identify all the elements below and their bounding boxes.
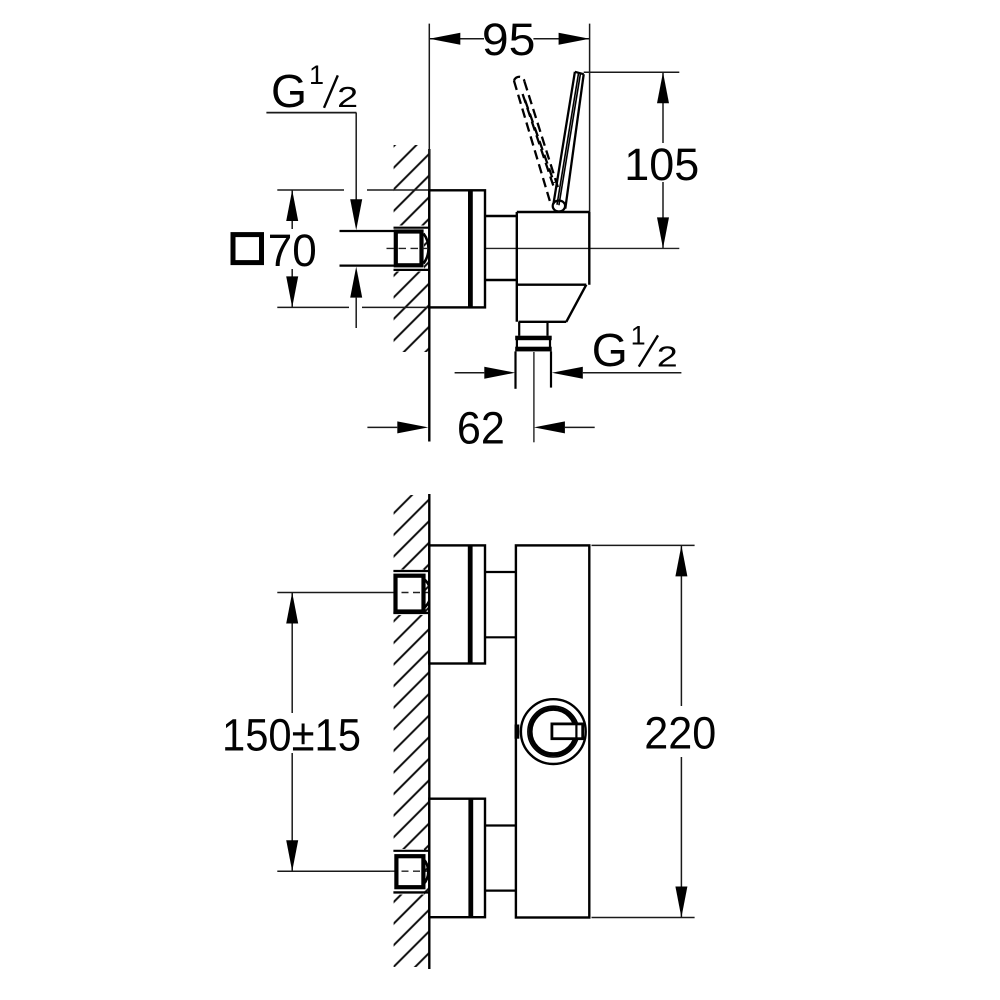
leader line with down arrow to inlet pipe — [350, 113, 362, 231]
svg-text:105: 105 — [624, 139, 699, 190]
dimension 220 text — [644, 707, 716, 758]
dimension 220 line and arrows — [675, 545, 687, 917]
svg-text:62: 62 — [457, 403, 505, 454]
dimension 150±15 text — [222, 709, 361, 760]
svg-text:2: 2 — [337, 82, 358, 114]
flange thick ring line — [468, 190, 473, 307]
dimension 62 text — [457, 403, 505, 454]
body (bottom view) — [516, 545, 589, 917]
lever dashed alternate position — [514, 77, 559, 201]
svg-text:1: 1 — [309, 60, 324, 90]
body lower trapezoid (top view) — [519, 285, 587, 322]
horizontal centerline (dash-dot then solid) — [387, 247, 680, 249]
svg-text:70: 70 — [268, 225, 317, 276]
svg-text:95: 95 — [482, 14, 536, 65]
extension line bottom of 70 (flange bottom level) — [277, 306, 429, 308]
label G 1/2 (top left) — [271, 60, 358, 117]
svg-text:220: 220 — [644, 707, 716, 758]
extension line top of 70 (flange top level) — [277, 189, 429, 191]
lower union arc — [423, 859, 428, 885]
dimension 70 text — [268, 225, 317, 276]
extension line for 95 at body right edge — [589, 24, 591, 212]
svg-text:150±15: 150±15 — [222, 709, 361, 760]
upper square union nut — [396, 576, 424, 612]
leader underline for G 1/2 (top left) — [266, 112, 356, 114]
upper neck (bottom view) — [485, 572, 516, 637]
knob handle tab divider — [575, 724, 577, 739]
fitting seat lines (top view) — [394, 228, 429, 270]
square symbol of 70 dimension — [233, 235, 262, 263]
knob inner thin circle — [528, 706, 579, 757]
square union nut (top view) — [396, 232, 422, 266]
lever solid position — [553, 72, 583, 209]
inlet pipe lines (top view) — [340, 231, 395, 266]
upper union seat lines — [393, 571, 428, 613]
label G 1/2 (outlet) — [592, 321, 678, 377]
white backing for upper union (bottom view) — [393, 570, 425, 616]
hose centerline vertical — [533, 352, 535, 442]
side button on body left edge — [515, 725, 520, 739]
lower union seat lines — [393, 851, 428, 893]
wall hatch (top view) — [394, 145, 429, 352]
lower neck (bottom view) — [485, 826, 516, 891]
body (top view) — [517, 212, 590, 322]
outlet stub (top view) — [519, 322, 547, 336]
wall line (top view) — [428, 149, 430, 442]
svg-text:2: 2 — [657, 342, 678, 374]
220 extension line bottom — [592, 917, 695, 919]
dimension 70 vertical line and arrows — [286, 190, 298, 307]
neck between flange and body (top view) — [485, 216, 517, 280]
svg-text:G: G — [271, 65, 307, 117]
upper block thick ring line — [468, 545, 473, 663]
wall line (bottom view) — [428, 494, 430, 969]
dimension G 1/2 at outlet (bottom of top view) — [455, 367, 682, 379]
union nut arc (top view) — [424, 234, 429, 264]
hose lines below nut (top view) — [516, 351, 552, 388]
extension line for 95 at wall — [428, 24, 430, 190]
lower union centerline — [277, 870, 429, 872]
lower connection block (bottom view) — [429, 799, 485, 918]
dimension 95 line and arrows — [429, 33, 589, 45]
knob inner thick circle — [531, 709, 576, 754]
dimension 150±15 line and arrows — [286, 593, 298, 872]
dimension 95 text — [482, 14, 536, 65]
upper union arc — [423, 579, 430, 609]
220 extension line top — [592, 544, 695, 546]
upper union centerline — [277, 592, 429, 594]
line from lever top to 105 dimension — [584, 71, 680, 73]
knob handle tab — [552, 724, 583, 739]
flange / escutcheon (top view) — [429, 190, 485, 307]
dimension 105 text — [624, 139, 699, 190]
lower block thick ring line — [468, 799, 473, 918]
svg-text:G: G — [592, 324, 628, 376]
white backing for inlet fitting (top view) — [393, 226, 425, 272]
lever pivot ellipse — [553, 201, 565, 212]
wall hatch (bottom view) — [394, 495, 429, 967]
upper connection block (bottom view) — [429, 545, 485, 663]
svg-text:1: 1 — [631, 321, 646, 351]
knob outer circle — [521, 699, 586, 764]
white backing for lower union (bottom view) — [393, 849, 425, 895]
dimension 62 — [367, 421, 594, 433]
lower arrow pointing up at inlet pipe bottom — [350, 267, 362, 328]
dimension 105 line and arrows — [657, 72, 669, 248]
outlet nut (top view) — [515, 336, 552, 352]
lower square union nut — [396, 856, 423, 887]
